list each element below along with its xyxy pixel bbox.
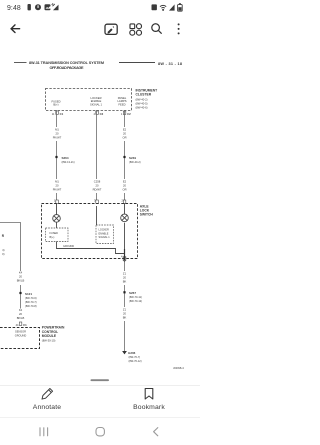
svg-text:(8W-70-8): (8W-70-8) <box>25 304 37 308</box>
svg-text:OR: OR <box>122 136 126 140</box>
title 8W-31 TRANSMISSION CONTROL SYSTEM <box>29 61 104 65</box>
lamp DS1 (left indicator) <box>53 204 61 223</box>
svg-text:S264: S264 <box>62 156 69 160</box>
svg-text:Bookmark: Bookmark <box>133 404 165 411</box>
status bar right icon: screenshot <box>152 4 157 10</box>
status bar right icon: signal <box>169 4 175 10</box>
svg-text:C1: C1 <box>23 323 27 327</box>
svg-text:FUSED: FUSED <box>50 232 59 235</box>
svg-text:PK/WT: PK/WT <box>53 136 62 140</box>
svg-text:B(+): B(+) <box>50 236 55 239</box>
pin 4 C2 <box>94 111 104 116</box>
lamp DS2 (right indicator) <box>121 204 129 222</box>
svg-text:(8W-70-12): (8W-70-12) <box>129 299 142 303</box>
wire label M1 20 PK/WT upper <box>52 127 62 141</box>
svg-text:K4: K4 <box>19 271 23 275</box>
svg-text:GROUND: GROUND <box>15 333 27 337</box>
svg-text:20: 20 <box>19 275 22 279</box>
svg-text:20: 20 <box>96 184 99 188</box>
svg-text:M1: M1 <box>55 180 59 184</box>
label PANEL LAMPS FEED <box>117 96 126 106</box>
bottom sheet handle pill <box>91 379 110 381</box>
pin 44 C1 <box>16 322 28 327</box>
svg-text:J04W8-4: J04W8-4 <box>173 366 184 370</box>
toolbar back arrow <box>11 25 20 33</box>
toolbar search icon <box>152 24 162 33</box>
svg-text:PK/WT: PK/WT <box>53 188 62 192</box>
splice S121 <box>19 292 36 308</box>
svg-text:G206: G206 <box>128 351 136 355</box>
svg-text:B(+): B(+) <box>53 103 58 107</box>
bookmark label <box>133 404 165 411</box>
svg-text:Annotate: Annotate <box>33 404 61 411</box>
svg-text:BK/LB: BK/LB <box>17 316 25 320</box>
status bar notification icon 4 <box>52 3 59 10</box>
svg-text:SIGNAL 1: SIGNAL 1 <box>99 236 111 239</box>
svg-text:(8W-70-6): (8W-70-6) <box>25 296 37 300</box>
svg-text:20: 20 <box>123 312 126 316</box>
wire label K4 20 BK/LB upper <box>16 271 26 286</box>
svg-text:OFF-ROAD PACKAGE: OFF-ROAD PACKAGE <box>50 66 84 70</box>
nav recents icon <box>40 428 48 436</box>
svg-text:(8W-40-2): (8W-40-2) <box>129 160 141 164</box>
wire label C258 20 RD/WT <box>92 179 103 193</box>
svg-text:OR: OR <box>122 188 126 192</box>
label POWERTRAIN CONTROL MODULE <box>42 326 65 338</box>
toolbar annotate icon <box>105 24 117 34</box>
svg-text:8W - 31 - 18: 8W - 31 - 18 <box>158 62 182 66</box>
axle lock switch pin 3 <box>94 199 98 204</box>
label SENSOR GROUND <box>15 330 27 338</box>
nav home icon <box>96 428 104 436</box>
right lamp to exit wire <box>124 223 126 259</box>
toolbar grid icon <box>130 24 142 36</box>
svg-text:C258: C258 <box>94 180 101 184</box>
ground rail wire inside switch <box>57 242 125 254</box>
bottom bar divider <box>0 385 200 387</box>
svg-text:MODULE: MODULE <box>42 334 57 338</box>
title OFF-ROAD PACKAGE <box>50 66 84 70</box>
wire label E2 20 OR upper <box>120 127 130 141</box>
status bar right icon: battery <box>178 3 183 11</box>
axle lock switch box S1 <box>42 204 138 259</box>
wire right (panel lamps) <box>124 110 126 203</box>
svg-text:K4: K4 <box>19 308 23 312</box>
wire middle (locker enable) <box>96 110 98 203</box>
svg-text:C1: C1 <box>60 112 64 116</box>
toolbar overflow menu <box>178 23 180 34</box>
status bar right icon: volte/wifi <box>160 5 166 11</box>
svg-text:S249: S249 <box>129 156 136 160</box>
svg-text:SIGNAL 1: SIGNAL 1 <box>90 102 103 106</box>
svg-text:C2: C2 <box>127 112 131 116</box>
svg-text:20: 20 <box>123 276 126 280</box>
label AXLE LOCK SWITCH <box>140 204 154 216</box>
svg-text:(8W-13-21): (8W-13-21) <box>62 160 75 164</box>
svg-text:(8W-70-11): (8W-70-11) <box>129 295 142 299</box>
annotate label <box>33 404 61 411</box>
svg-text:SWITCH: SWITCH <box>140 213 154 217</box>
svg-text:4): 4) <box>2 248 4 252</box>
axle lock switch pin 1 <box>54 199 58 204</box>
svg-text:(8W-30-10): (8W-30-10) <box>42 338 56 342</box>
label GROUND <box>63 245 74 248</box>
ground symbol G206 <box>122 351 142 363</box>
splice S249 <box>123 156 140 164</box>
label FUSED B(+) <box>51 100 60 107</box>
svg-text:FEED: FEED <box>118 102 125 106</box>
ground wire Z1 <box>124 260 126 351</box>
pin 1 C2 <box>121 111 131 116</box>
svg-text:E2: E2 <box>123 180 127 184</box>
nav back icon <box>154 428 158 436</box>
svg-text:(8W-70-7): (8W-70-7) <box>129 355 141 359</box>
page number 8W - 31 - 18 <box>158 62 182 66</box>
cut-off label fragment refs <box>2 248 4 256</box>
svg-text:8W-31 TRANSMISSION CONTROL SYS: 8W-31 TRANSMISSION CONTROL SYSTEM <box>29 61 104 65</box>
svg-text:20: 20 <box>123 184 126 188</box>
svg-text:SENSOR: SENSOR <box>15 330 26 334</box>
svg-text:BK: BK <box>123 280 127 284</box>
svg-text:E2: E2 <box>123 128 127 132</box>
svg-text:S121: S121 <box>25 292 32 296</box>
PCM reference <box>42 338 56 342</box>
svg-text:S267: S267 <box>129 291 136 295</box>
svg-text:0): 0) <box>2 252 4 256</box>
svg-text:20: 20 <box>123 132 126 136</box>
svg-text:(8W-70-12): (8W-70-12) <box>129 359 142 363</box>
svg-text:20: 20 <box>19 312 22 316</box>
status bar notification icon 1 <box>28 4 31 10</box>
header rule left <box>14 62 27 64</box>
status bar notification icon 3 <box>45 4 52 10</box>
svg-text:Z1: Z1 <box>123 308 127 312</box>
cut-off label fragment R <box>2 234 5 238</box>
left branch wire from off-page <box>0 223 21 323</box>
svg-text:(8W-40-5): (8W-40-5) <box>136 101 148 105</box>
nav bar divider <box>0 417 200 419</box>
svg-text:C2: C2 <box>100 112 104 116</box>
label INSTRUMENT CLUSTER <box>136 89 158 97</box>
wire label M1 20 PK/WT lower <box>52 179 62 193</box>
svg-text:(8W-40-2): (8W-40-2) <box>136 97 148 101</box>
svg-text:GROUND: GROUND <box>63 245 74 248</box>
svg-text:20: 20 <box>56 184 59 188</box>
svg-text:RD/WT: RD/WT <box>93 188 102 192</box>
svg-text:ENABLE: ENABLE <box>99 232 109 235</box>
svg-text:BK: BK <box>123 316 127 320</box>
axle lock switch pin 2 <box>122 199 126 204</box>
status bar notification icon 2 <box>35 4 41 10</box>
wire label Z1 20 BK upper <box>120 271 129 285</box>
inner block FUSED B(+) <box>46 222 69 241</box>
exit pin 4 <box>121 249 126 262</box>
instrument cluster box U1 <box>46 89 132 111</box>
splice S267 <box>123 291 142 303</box>
svg-text:Z1: Z1 <box>123 272 127 276</box>
annotate pencil icon <box>42 389 53 400</box>
svg-text:CLUSTER: CLUSTER <box>136 93 152 97</box>
label LOCKER ENABLE SIGNAL 1 <box>90 96 103 106</box>
svg-text:LOCKER: LOCKER <box>99 229 109 232</box>
wire label K4 20 BK/LB lower <box>16 308 26 323</box>
wire left (fused B+) <box>56 110 58 203</box>
svg-text:M1: M1 <box>55 128 59 132</box>
header rule right <box>119 62 155 64</box>
svg-text:9:48: 9:48 <box>7 5 21 12</box>
wire label Z1 20 BK lower <box>120 307 129 321</box>
svg-text:20: 20 <box>56 132 59 136</box>
svg-text:(8W-70-7): (8W-70-7) <box>25 300 37 304</box>
status bar clock <box>7 5 21 12</box>
inner block LOCKER ENABLE SIGNAL 1 <box>96 206 114 244</box>
pin 11 C1 <box>52 111 64 116</box>
instrument cluster references <box>136 97 148 109</box>
svg-text:BK/LB: BK/LB <box>17 279 25 283</box>
splice S264 <box>55 156 74 164</box>
powertrain control module box <box>0 328 40 349</box>
bookmark icon <box>145 389 153 400</box>
drawing number <box>173 366 184 370</box>
svg-text:(8W-40-6): (8W-40-6) <box>136 105 148 109</box>
wire label E2 20 OR lower <box>120 179 130 193</box>
